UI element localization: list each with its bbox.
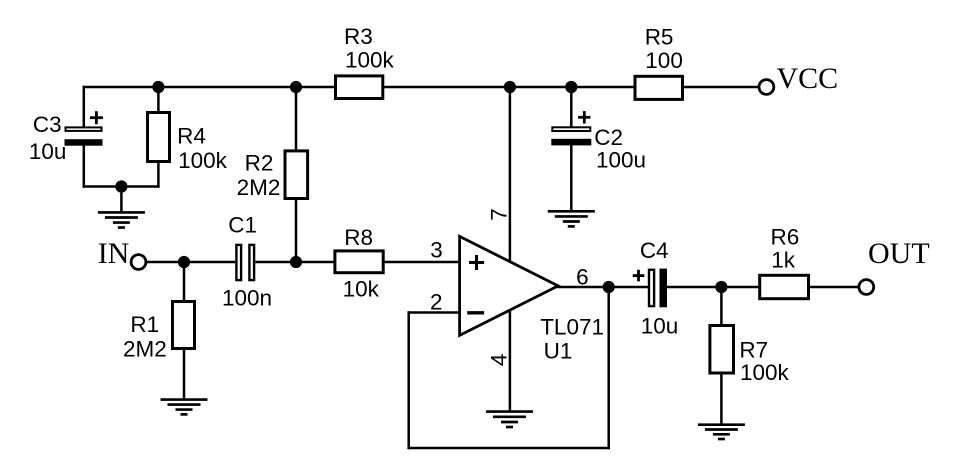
svg-text:IN: IN	[98, 237, 130, 270]
label R4	[177, 124, 228, 173]
pin number 4 (rotated)	[487, 354, 512, 367]
svg-text:4: 4	[487, 354, 512, 367]
resistor R6	[760, 275, 809, 298]
junction node on rail at pin 7	[504, 81, 516, 93]
label R2	[237, 150, 281, 200]
wire op-amp pin 4 to ground	[509, 309, 512, 412]
svg-text:6: 6	[576, 264, 589, 289]
svg-text:VCC: VCC	[777, 62, 839, 95]
wire top rail right segment	[684, 86, 760, 89]
junction node at C3/R4 ground	[115, 180, 127, 192]
label C2	[594, 125, 646, 173]
wire C2 top lead	[570, 87, 573, 127]
wire C3 top lead	[83, 86, 86, 127]
svg-text:R4: R4	[177, 124, 206, 149]
label C3	[29, 112, 67, 164]
resistor R2	[285, 151, 308, 199]
wire ground stub below C3/R4	[120, 187, 123, 213]
wire R7 bottom lead	[720, 374, 723, 425]
svg-text:100k: 100k	[345, 47, 395, 72]
op-amp minus input marker	[467, 311, 484, 314]
net label OUT	[868, 237, 930, 270]
svg-text:10u: 10u	[641, 314, 679, 339]
label R1	[123, 312, 167, 361]
ground below C2	[548, 211, 595, 226]
wire R4 bottom lead	[157, 163, 160, 188]
wire R1 top lead	[183, 262, 186, 301]
resistor R8	[335, 251, 383, 273]
pin number 2	[430, 289, 443, 314]
wire R1 bottom lead	[183, 350, 186, 400]
svg-text:100: 100	[645, 48, 683, 73]
label R3	[344, 24, 395, 72]
svg-text:R6: R6	[771, 224, 800, 249]
svg-text:U1: U1	[544, 339, 573, 364]
svg-text:R2: R2	[245, 150, 274, 175]
resistor R5	[635, 76, 683, 99]
wire feedback right vertical	[607, 287, 610, 449]
wire top rail left segment	[83, 86, 335, 89]
wire C1 to R8	[255, 261, 335, 264]
net label IN	[98, 237, 130, 270]
svg-text:R1: R1	[130, 312, 159, 337]
resistor R1	[173, 302, 195, 349]
svg-text:1k: 1k	[771, 248, 796, 273]
resistor R4	[148, 113, 170, 162]
junction node at op-amp output	[603, 281, 615, 293]
svg-text:R8: R8	[344, 225, 373, 250]
wire R2 bottom lead	[295, 200, 298, 263]
resistor R3	[336, 76, 383, 99]
label C4	[640, 238, 678, 338]
svg-text:TL071: TL071	[540, 314, 604, 339]
wire top rail middle segment	[384, 86, 635, 89]
wire C2 bottom lead	[570, 145, 573, 211]
junction node at C1 / R2	[290, 256, 302, 268]
label U1 TL071	[540, 314, 604, 363]
op-amp plus input marker	[469, 255, 484, 270]
label R8	[343, 225, 380, 301]
svg-text:100u: 100u	[596, 148, 646, 173]
svg-text:2M2: 2M2	[237, 175, 281, 200]
pin number 6	[576, 264, 589, 289]
junction node on rail at R4	[152, 81, 164, 93]
svg-text:100k: 100k	[178, 148, 228, 173]
wire C3 bottom lead	[83, 145, 86, 188]
pin number 3	[430, 237, 443, 262]
op-amp U1 triangle	[460, 236, 558, 335]
capacitor C2	[551, 127, 591, 145]
svg-text:10k: 10k	[343, 277, 380, 302]
label R7	[739, 338, 789, 385]
svg-text:2M2: 2M2	[123, 336, 167, 361]
wire op-amp pin 2	[408, 311, 460, 314]
plus sign of C2	[578, 111, 590, 123]
wire feedback bottom horizontal	[407, 447, 610, 450]
svg-text:3: 3	[430, 237, 443, 262]
svg-text:100n: 100n	[222, 286, 272, 311]
svg-text:C2: C2	[594, 125, 623, 150]
svg-text:R5: R5	[645, 24, 674, 49]
ground below op-amp pin 4	[486, 412, 533, 427]
svg-text:C1: C1	[228, 213, 257, 238]
wire R8 to op-amp pin 3	[384, 261, 460, 264]
svg-text:10u: 10u	[29, 139, 67, 164]
ground below R7	[698, 425, 745, 439]
plus sign of C3	[90, 111, 103, 124]
net label VCC	[777, 62, 839, 95]
wire R4 top lead	[157, 87, 160, 112]
wire IN to C1	[146, 261, 235, 264]
wire feedback left vertical	[407, 311, 410, 449]
svg-text:C4: C4	[640, 238, 669, 263]
wire C3-R4 bottom link	[83, 185, 160, 188]
wire R7 top lead	[720, 287, 723, 325]
svg-text:OUT: OUT	[868, 237, 930, 270]
svg-text:100k: 100k	[740, 360, 790, 385]
terminal IN	[131, 255, 146, 270]
terminal OUT	[859, 280, 874, 295]
resistor R7	[710, 326, 734, 374]
svg-text:2: 2	[430, 289, 443, 314]
junction node at IN / R1	[178, 256, 190, 268]
wire R6 to OUT	[809, 286, 859, 289]
wire op-amp output to C4	[556, 286, 649, 289]
ground below R1	[161, 400, 208, 415]
svg-text:7: 7	[487, 208, 512, 221]
capacitor C4	[649, 269, 667, 308]
wire C4 to R6	[667, 286, 760, 289]
wire R2 top lead	[295, 87, 298, 150]
plus sign of C4	[633, 270, 645, 282]
svg-text:R3: R3	[344, 24, 373, 49]
capacitor C1	[236, 245, 254, 280]
label R6	[771, 224, 800, 272]
label R5	[645, 24, 683, 73]
label C1	[222, 213, 272, 311]
terminal VCC	[759, 80, 774, 95]
wire op-amp pin 7 supply	[509, 87, 512, 262]
ground below C3/R4	[98, 212, 145, 227]
pin number 7 (rotated)	[487, 208, 512, 221]
junction node at C4 / R7	[715, 281, 727, 293]
capacitor C3	[65, 127, 103, 145]
junction node on rail at R2	[290, 81, 302, 93]
junction node on rail at C2	[565, 81, 577, 93]
svg-text:C3: C3	[33, 112, 62, 137]
